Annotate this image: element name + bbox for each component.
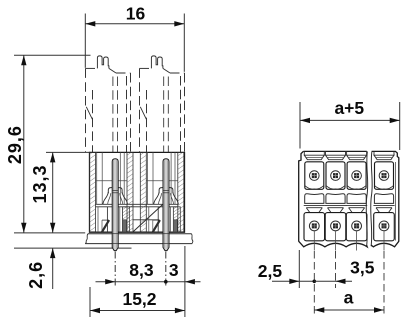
front column 3 middle key — [347, 194, 366, 204]
dimension a+5: right extension line — [399, 102, 401, 150]
plug module 1 latch hook — [86, 107, 92, 119]
module 2 right wall (hatched) — [178, 152, 184, 231]
dimension 3,5 line — [314, 280, 352, 282]
PCB left break line — [85, 234, 88, 244]
module 1 pedestal walls — [106, 207, 108, 232]
svg-text:15,2: 15,2 — [122, 289, 156, 309]
pin 1 — [112, 159, 118, 251]
module 1 lower hatched block — [123, 207, 130, 232]
pin 1 centerline — [114, 252, 116, 287]
module 2 pedestal walls — [157, 207, 159, 232]
dimension 8,3: left arrow (outside) — [105, 279, 115, 284]
PCB right break line — [192, 234, 193, 244]
dimension 15,2: left arrow — [90, 308, 100, 313]
front column 2 upper cell — [326, 162, 345, 190]
dimension 15,2: dimension line — [90, 310, 185, 312]
plug module 1 top chamfer — [109, 68, 116, 73]
front column 4 solder pin leader — [383, 231, 385, 251]
front column 3 upper contact circle — [352, 171, 362, 181]
dimension 16: right arrow — [174, 21, 184, 26]
dimension 2,6: lower reference line — [14, 247, 132, 249]
module 1 chamber floor line — [96, 180, 127, 182]
dimension a+5: right arrow — [390, 118, 400, 123]
inner vertical line right margin — [395, 162, 397, 241]
dimension 16: dimension line — [85, 23, 184, 25]
module 1 chamber slot lines — [96, 152, 98, 204]
module 1 right wall (hatched) — [127, 152, 133, 231]
front column 1 solder pin leader — [313, 231, 315, 251]
front column 3 lower contact circle — [352, 221, 362, 231]
module 1 bottom wedge — [102, 219, 109, 221]
front column 4 top funnel tab — [373, 151, 375, 155]
front column 4 upper cell — [375, 162, 394, 190]
module 2 dark block — [173, 220, 177, 232]
front column 4 lower contact circle — [379, 221, 389, 231]
dimension 2,5: arrow — [289, 279, 299, 284]
dimension 3: right arrow (outside) — [185, 279, 195, 284]
dimension 2,6: upper reference line — [14, 232, 85, 234]
housing scalloped bottom edge piece 2 — [371, 241, 399, 247]
svg-text:3,5: 3,5 — [350, 258, 375, 278]
break tear line left — [366, 151, 368, 246]
front column 1 extension line — [313, 251, 315, 314]
dimension a: left arrow — [314, 307, 324, 312]
front view housing piece 2 outline — [372, 151, 399, 241]
module 1 hidden contact lines (dashed) — [112, 77, 114, 153]
front column 3 lower cell — [346, 213, 367, 241]
module 2 lower slot line — [148, 207, 150, 232]
plug module 2 latch hook — [140, 107, 146, 119]
front column 4 upper contact circle — [379, 171, 389, 181]
dimension 29,6: dimension line — [23, 55, 25, 233]
dimension 13,3: dimension line — [52, 152, 54, 232]
front column 1 lower cell — [304, 213, 325, 241]
svg-text:2,6: 2,6 — [26, 261, 46, 289]
break tear line right — [371, 151, 373, 246]
front column 2 solder pin leader — [335, 231, 337, 251]
dimension 13,3: bottom arrow — [50, 223, 55, 233]
front column 4 collar — [373, 204, 394, 206]
front column 2 collar — [325, 204, 346, 206]
plug module 2 latch bumps — [151, 56, 163, 69]
front column 3 collar — [346, 204, 367, 206]
dimension 15,2: right arrow — [175, 308, 185, 313]
front column 3 top funnel tab — [346, 151, 348, 155]
module 2 lower hatched block — [173, 207, 180, 232]
dimension a+5: left arrow — [300, 118, 310, 123]
svg-text:16: 16 — [126, 4, 146, 24]
dimension 13,3: top reference line — [46, 151, 90, 153]
front column 1 lower contact circle — [309, 221, 319, 231]
svg-text:a: a — [344, 288, 354, 308]
dimension a line — [314, 309, 384, 311]
module 1 contact funnel — [108, 188, 122, 194]
front column 2 middle key — [326, 194, 345, 204]
dimension 16: left arrow — [85, 21, 95, 26]
front column 1 upper cell — [305, 162, 324, 190]
module 2 contact funnel — [159, 188, 173, 194]
PCB board side view — [88, 233, 192, 235]
dimension 16: extension lines — [84, 14, 86, 68]
front view housing piece 1 outline — [299, 151, 304, 241]
plug module 1 latch bumps — [97, 56, 109, 69]
svg-text:29,6: 29,6 — [5, 125, 25, 164]
dimension 29,6: top reference line — [14, 54, 91, 56]
dimension 2,6: arrow — [50, 248, 55, 258]
svg-text:2,5: 2,5 — [258, 261, 283, 281]
body ledge lines — [96, 203, 179, 205]
module 1 dark block — [123, 220, 127, 232]
dimension 15,2 / 3: right extension line — [184, 246, 186, 317]
dimension a+5: left extension line — [299, 102, 301, 149]
module 2 chamber floor line — [147, 180, 178, 182]
front column 2 top funnel tab — [325, 151, 327, 155]
plug module 1 hidden outline — [85, 68, 87, 152]
pin 2 ticks — [163, 190, 169, 192]
module 1 lower slot line — [97, 207, 99, 232]
module 2 bottom wedge — [153, 219, 160, 221]
front left edge extension line — [298, 250, 300, 288]
svg-text:3: 3 — [169, 260, 179, 280]
inter-pedestal horizontal line — [133, 219, 159, 221]
front column 4 middle key — [374, 194, 393, 204]
dimension a: right arrow — [374, 307, 384, 312]
front column 1 upper contact circle — [310, 171, 320, 181]
dimension 13,3: top arrow — [50, 152, 55, 162]
front column 4 extension line — [383, 251, 385, 314]
front column 2 lower contact circle — [331, 221, 341, 231]
plug module 2 hidden outline — [139, 68, 141, 152]
pin 1 ticks — [112, 190, 118, 192]
dimension 2,6: dimension line tail — [52, 248, 54, 289]
dimension 2,5 line — [272, 280, 314, 282]
module 2 chamber slot lines — [147, 152, 149, 204]
front column 2 upper contact circle — [331, 171, 341, 181]
dimension 8,3 / 3: dimension line — [96, 281, 201, 283]
plug module 2 top chamfer — [163, 68, 170, 73]
front column 2 extension line — [335, 251, 337, 288]
front column 1 middle key — [305, 194, 324, 204]
module 1 left wall (hatched) — [90, 152, 96, 231]
front column 1 top funnel tab — [303, 151, 305, 155]
section diagonal between pedestals — [133, 201, 166, 231]
front column 4 lower cell — [374, 213, 395, 241]
dimension 2,5 / 3,5 shared point dot — [313, 280, 317, 284]
pin 2 centerline — [165, 252, 167, 287]
dimension a+5: dimension line — [300, 119, 400, 121]
svg-text:13,3: 13,3 — [30, 164, 50, 203]
dimension 8,3 / 3: shared point dot — [164, 280, 168, 284]
svg-text:8,3: 8,3 — [129, 260, 154, 280]
front column 1 collar — [304, 204, 325, 206]
connector body outline — [90, 152, 185, 232]
module 2 hidden contact lines (dashed) — [163, 77, 165, 153]
dimension 15,2: left extension line — [89, 287, 91, 317]
dimension 29,6: bottom arrow — [21, 223, 26, 233]
front column 2 lower cell — [325, 213, 346, 241]
housing scalloped bottom edge piece 1 — [299, 241, 368, 247]
dimension 29,6: top arrow — [21, 55, 26, 65]
dimension 3,5: arrow — [336, 279, 346, 284]
front column 3 solder pin leader — [356, 231, 358, 251]
pin 2 — [163, 159, 169, 251]
front column 3 upper cell — [347, 162, 366, 190]
module 2 left wall (hatched) — [140, 152, 146, 231]
svg-text:a+5: a+5 — [334, 98, 364, 118]
